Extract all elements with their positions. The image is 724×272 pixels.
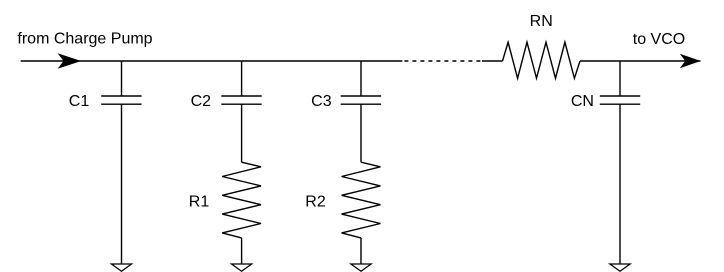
wire: RN to VCO output [580,60,701,62]
ground (R1 branch) [232,264,252,271]
wire: RN left lead [482,60,503,62]
capacitor C1 [101,96,141,104]
wire: CN to ground [619,104,621,264]
wire: C3 to R2 [360,104,362,162]
svg-text:C1: C1 [69,93,90,110]
wire: C2 to R1 [241,104,243,162]
svg-text:RN: RN [530,13,553,30]
svg-text:to VCO: to VCO [633,31,685,48]
wire: R2 to ground [360,238,362,264]
ground (R2 branch) [351,264,371,271]
wire: R1 to ground [241,238,243,264]
wire: dashed continuation segment [402,60,482,62]
resistor RN [503,42,581,78]
capacitor C2 [221,96,261,104]
wire: C1 branch top [121,61,123,96]
capacitor CN [600,96,640,104]
capacitor C3 [341,96,381,104]
wire: C2 branch top [241,61,243,96]
svg-text:R2: R2 [305,193,326,210]
resistor R1 [222,162,261,238]
resistor R2 [342,162,381,238]
wire: C1 to ground [121,104,123,264]
arrowhead: input arrow into filter [58,53,82,69]
wire: C3 branch top [360,61,362,96]
svg-text:C2: C2 [191,93,212,110]
wire: CN branch top [619,61,621,96]
svg-text:R1: R1 [189,193,210,210]
wire: input from charge pump [21,60,81,62]
arrowhead: output arrow to VCO [680,54,701,69]
ground (C1 branch) [111,264,131,271]
svg-text:C3: C3 [311,93,332,110]
ground (CN branch) [610,264,630,271]
svg-text:from Charge Pump: from Charge Pump [17,31,152,48]
svg-text:CN: CN [571,93,594,110]
wire: main bus (node A) [81,60,402,62]
